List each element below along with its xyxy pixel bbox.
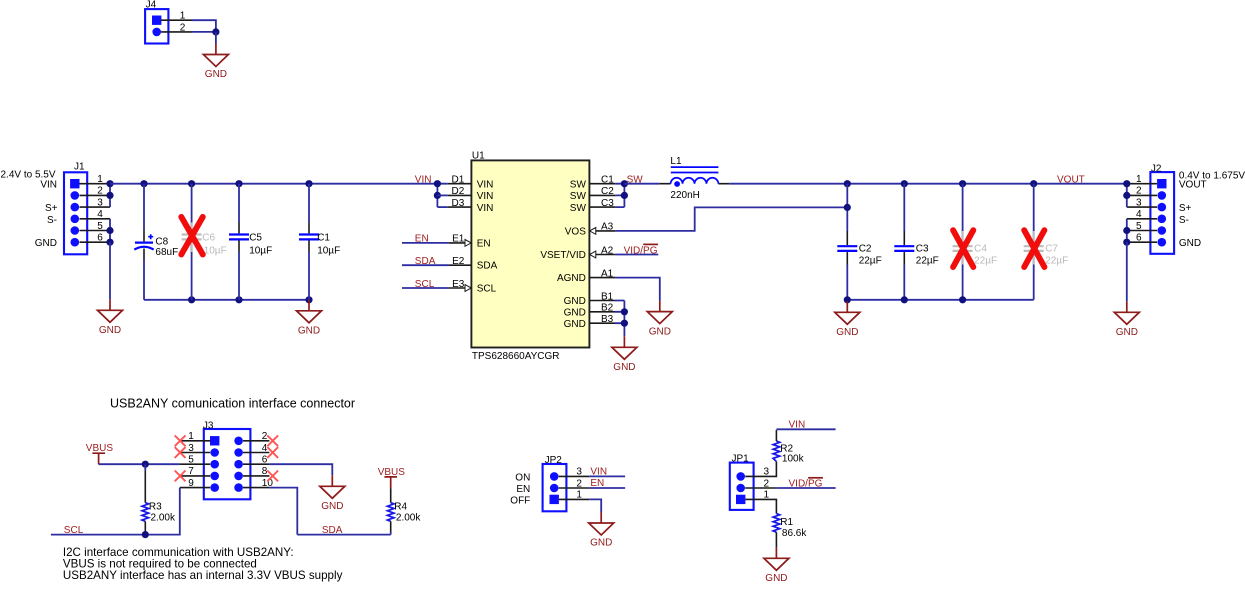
- J3 pin stubs left: [180, 441, 211, 488]
- wire J4 pin2 stub: [161, 31, 192, 33]
- wire J2 pin6 stub: [1127, 241, 1157, 243]
- wire J1 pin4 stub: [80, 218, 111, 220]
- svg-text:SCL: SCL: [477, 284, 497, 295]
- ground at J3 pin6: [320, 475, 345, 512]
- svg-text:C2: C2: [601, 186, 614, 197]
- junction J2 pin6: [1123, 239, 1130, 246]
- svg-text:D3: D3: [452, 198, 465, 209]
- connector J1: [64, 162, 87, 255]
- svg-text:VBUS: VBUS: [86, 443, 114, 454]
- resistor R1 86.6k: [773, 514, 807, 548]
- wire VID/PG stub: [615, 254, 658, 256]
- svg-text:GND: GND: [564, 296, 586, 307]
- junction SW C2: [621, 192, 628, 199]
- wire AGND to ground: [615, 278, 659, 301]
- svg-text:VIN: VIN: [415, 175, 432, 186]
- J1 side labels: [1, 170, 58, 249]
- junction J4 GND node: [212, 28, 219, 35]
- svg-text:SW: SW: [570, 191, 587, 202]
- wire J4 pin1 to corner: [192, 20, 216, 32]
- svg-text:R3: R3: [149, 501, 162, 512]
- junction bottom rail at C3: [901, 296, 908, 303]
- wire SDA run: [297, 534, 390, 536]
- svg-text:GND: GND: [35, 238, 57, 249]
- wire J3 pin10 to SDA: [269, 488, 297, 535]
- svg-text:VIN: VIN: [477, 191, 494, 202]
- svg-text:VIN: VIN: [40, 180, 57, 191]
- svg-text:A2: A2: [601, 245, 614, 256]
- junction J2 pin2: [1123, 192, 1130, 199]
- svg-text:10µF: 10µF: [317, 246, 340, 257]
- inductor L1 220nH: [659, 156, 729, 201]
- ground at JP2: [589, 512, 614, 549]
- capacitor C2 22uF: [837, 231, 881, 300]
- junction J2 pin1: [1123, 180, 1130, 187]
- junction J1 pin5: [106, 227, 113, 234]
- ground below R1: [764, 547, 789, 584]
- wire VIN vertical to D2 D3: [436, 184, 438, 207]
- wire J1 pin5 stub: [80, 230, 111, 232]
- wire VBUS to J3 pin5: [99, 463, 180, 465]
- svg-text:D1: D1: [452, 175, 465, 186]
- svg-text:J1: J1: [74, 162, 85, 173]
- wire L1 to output rail: [729, 183, 1127, 185]
- U1 pin C1 SW: [570, 175, 616, 191]
- svg-text:OFF: OFF: [510, 495, 530, 506]
- wire J4 pin2 to junction: [192, 31, 216, 33]
- wire J2 pin5 stub: [1127, 230, 1157, 232]
- wire JP1 pin3 to R2: [745, 462, 776, 477]
- node SCL wire: [402, 279, 497, 295]
- svg-text:VID/PG: VID/PG: [789, 479, 823, 490]
- junction rail at C8: [140, 180, 147, 187]
- svg-text:22µF: 22µF: [974, 255, 997, 266]
- svg-text:C4: C4: [974, 243, 987, 254]
- wire J1 pin6 stub: [80, 241, 111, 243]
- svg-text:USB2ANY comunication interface: USB2ANY comunication interface connector: [110, 396, 355, 410]
- svg-text:C6: C6: [202, 233, 215, 244]
- svg-text:U1: U1: [472, 151, 485, 162]
- no-fit cross over C6: [181, 217, 203, 255]
- J2 pin number labels: [1136, 174, 1142, 244]
- wire J2 pin2 stub: [1127, 194, 1157, 196]
- connector JP1: [730, 454, 754, 510]
- junction R3 top: [142, 461, 149, 468]
- wire JP1 pin1 to R1: [745, 499, 776, 513]
- U1 pin D3 VIN: [448, 198, 494, 214]
- no-connect cross J3 pin8: [267, 471, 278, 482]
- wire SCL run: [51, 488, 180, 535]
- wire J1 pin6 down to ground: [109, 242, 111, 299]
- wire J2 pins 4-6 tie: [1126, 219, 1128, 242]
- svg-text:22µF: 22µF: [916, 255, 939, 266]
- svg-text:86.6k: 86.6k: [782, 528, 807, 539]
- JP2 pin number labels: [576, 467, 582, 501]
- U1 pin D1 VIN: [448, 175, 494, 191]
- svg-text:VIN: VIN: [789, 419, 806, 430]
- svg-text:S-: S-: [1179, 215, 1189, 226]
- J1 pin number labels: [97, 174, 103, 244]
- svg-text:A1: A1: [601, 268, 614, 279]
- no-connect cross J3 pin7: [175, 471, 186, 482]
- svg-text:68uF: 68uF: [155, 247, 178, 258]
- svg-text:VOUT: VOUT: [1057, 175, 1085, 186]
- junction bottom rail at C2: [844, 296, 851, 303]
- junction J1 pin2: [106, 192, 113, 199]
- wire J1 pins 4-6 tie: [109, 219, 111, 242]
- svg-text:2.00k: 2.00k: [396, 513, 421, 524]
- wire J1 pins 1-3 tie: [109, 184, 111, 207]
- svg-text:10µF: 10µF: [204, 245, 227, 256]
- J3 pin stubs right: [243, 441, 269, 488]
- svg-text:VID/PG: VID/PG: [624, 245, 658, 256]
- svg-text:SW: SW: [570, 179, 587, 190]
- wire J1 pin2 stub: [80, 194, 111, 196]
- svg-text:EN: EN: [590, 478, 604, 489]
- net label VID/PG at JP1: [789, 478, 823, 490]
- svg-text:J2: J2: [1151, 163, 1162, 174]
- svg-text:D2: D2: [452, 186, 465, 197]
- svg-text:C1: C1: [601, 175, 614, 186]
- junction bottom rail at C4: [959, 296, 966, 303]
- wire D2 link: [437, 194, 447, 196]
- note paragraph: [63, 546, 343, 582]
- wire J2 pin3 stub: [1127, 206, 1157, 208]
- connector J3: [203, 420, 251, 499]
- svg-text:VSET/VID: VSET/VID: [540, 250, 586, 261]
- J2 side labels: [1179, 170, 1245, 248]
- svg-text:C3: C3: [916, 243, 929, 254]
- junction B3: [621, 320, 628, 327]
- node SW tie: [615, 184, 624, 207]
- svg-text:100k: 100k: [782, 453, 805, 464]
- svg-text:C5: C5: [249, 233, 262, 244]
- JP1 pin number labels: [764, 467, 770, 501]
- net label VID/PG at U1: [624, 244, 658, 256]
- svg-text:C1: C1: [317, 233, 330, 244]
- capacitor C6 (DNP 10uF, grayed): [182, 184, 227, 300]
- J3 right pin number labels: [262, 431, 274, 489]
- svg-text:S-: S-: [47, 215, 57, 226]
- svg-text:VIN: VIN: [590, 466, 607, 477]
- capacitor C8 (polarized 68uF): [134, 184, 178, 300]
- svg-text:C8: C8: [155, 236, 168, 247]
- svg-text:SW: SW: [570, 203, 587, 214]
- junction rail at C5: [235, 180, 242, 187]
- wire VIN top rail: [110, 183, 448, 185]
- ground below J1: [98, 299, 123, 336]
- wire C2 column: [846, 184, 848, 231]
- svg-text:JP1: JP1: [732, 454, 750, 465]
- svg-text:B1: B1: [601, 291, 614, 302]
- ground below J4: [203, 44, 228, 81]
- svg-text:B3: B3: [601, 314, 614, 325]
- ground below U1: [612, 336, 637, 373]
- junction B2: [621, 308, 628, 315]
- U1 pin A3 VOS: [565, 222, 616, 238]
- wire VIN bottom rail: [144, 299, 309, 301]
- wire J2 pin1 stub: [1127, 183, 1157, 185]
- junction VIN D2: [434, 192, 441, 199]
- svg-text:L1: L1: [670, 156, 682, 167]
- svg-text:SDA: SDA: [477, 261, 498, 272]
- junction output rail at C4: [959, 180, 966, 187]
- svg-text:C2: C2: [859, 243, 872, 254]
- svg-text:A3: A3: [601, 222, 614, 233]
- wire VOS feedback: [615, 207, 847, 231]
- wire J3 pin6 to ground: [269, 464, 332, 475]
- no-connect cross J3 pin3: [175, 447, 186, 458]
- svg-text:22µF: 22µF: [1045, 255, 1068, 266]
- ground at AGND: [647, 301, 672, 338]
- svg-text:J4: J4: [146, 0, 157, 11]
- wire SW to L1: [624, 183, 659, 185]
- no-connect cross J3 pin2: [267, 435, 278, 446]
- wire JP2 pin2 EN: [559, 478, 625, 489]
- wire output bottom rail: [847, 299, 1033, 301]
- net label VBUS right: [378, 467, 406, 488]
- svg-text:22µF: 22µF: [859, 255, 882, 266]
- junction SCL at R3: [142, 531, 149, 538]
- wire B pins tie to ground: [615, 301, 624, 337]
- svg-text:AGND: AGND: [557, 273, 586, 284]
- svg-text:USB2ANY interface has an inter: USB2ANY interface has an internal 3.3V V…: [63, 569, 343, 582]
- svg-text:220nH: 220nH: [670, 190, 699, 201]
- capacitor C5 10uF: [229, 184, 272, 300]
- svg-text:EN: EN: [477, 238, 491, 249]
- svg-text:2.00k: 2.00k: [151, 513, 176, 524]
- U1 pin B2 GND: [564, 303, 615, 319]
- no-fit cross over C7: [1024, 230, 1044, 267]
- capacitor C1 10uF: [299, 184, 340, 300]
- capacitor C3 22uF: [894, 184, 939, 300]
- junction output rail at C3: [901, 180, 908, 187]
- junction output rail at C2: [844, 180, 851, 187]
- node EN wire: [402, 234, 491, 250]
- junction VOS tee: [844, 204, 851, 211]
- junction bottom rail at C1: [305, 296, 312, 303]
- junction output rail at C7: [1030, 180, 1037, 187]
- svg-text:VIN: VIN: [477, 203, 494, 214]
- U1 pin B3 GND: [564, 314, 615, 330]
- wire D3 link: [437, 206, 447, 208]
- ground below C2: [835, 301, 860, 338]
- connector J2: [1150, 163, 1174, 253]
- node SDA wire: [402, 256, 498, 272]
- connector JP2: [543, 455, 567, 511]
- svg-text:B2: B2: [601, 303, 614, 314]
- U1 pin C2 SW: [570, 186, 616, 202]
- svg-text:GND: GND: [564, 308, 586, 319]
- wire JP1 pin2 VID/PG: [745, 487, 835, 489]
- junction J1 pin1: [106, 180, 113, 187]
- U1 pin A1 AGND: [557, 268, 615, 284]
- connector J4: [145, 0, 168, 44]
- svg-text:R4: R4: [394, 501, 407, 512]
- svg-text:VOUT: VOUT: [1179, 180, 1207, 191]
- junction J2 pin5: [1123, 227, 1130, 234]
- svg-text:J3: J3: [203, 420, 214, 431]
- ground below C1 column: [297, 300, 322, 337]
- no-fit cross over C4: [953, 230, 973, 267]
- U1 pin D2 VIN: [448, 186, 494, 202]
- svg-text:VOS: VOS: [565, 226, 586, 237]
- wire J1 pin3 stub: [80, 206, 111, 208]
- wire JP2 pin3 VIN: [559, 466, 625, 477]
- svg-text:S+: S+: [45, 203, 58, 214]
- no-connect cross J3 pin1: [175, 435, 186, 446]
- wire J2 pin4 stub: [1127, 218, 1157, 220]
- resistor R4 2.00k: [387, 488, 421, 534]
- capacitor C4 (DNP 22uF, grayed): [953, 184, 998, 300]
- svg-text:C7: C7: [1045, 243, 1058, 254]
- svg-text:EN: EN: [516, 484, 530, 495]
- junction VIN D1: [434, 180, 441, 187]
- svg-text:S+: S+: [1179, 203, 1192, 214]
- resistor R3 2.00k: [142, 464, 176, 534]
- svg-text:E2: E2: [452, 256, 465, 267]
- junction J1 pin6: [106, 239, 113, 246]
- junction rail at C1: [305, 180, 312, 187]
- wire J4 junction down: [215, 32, 217, 44]
- wire J1 pin1 stub: [80, 183, 111, 185]
- U1 pin B1 GND: [564, 291, 615, 307]
- J3 left pin number labels: [188, 431, 194, 489]
- U1 pin C3 SW: [570, 198, 616, 214]
- junction SW C1: [621, 180, 628, 187]
- wire JP2 pin1 to ground: [559, 499, 601, 512]
- capacitor C7 (DNP 22uF, grayed): [1024, 184, 1068, 300]
- svg-text:R1: R1: [780, 517, 793, 528]
- svg-text:10µF: 10µF: [249, 246, 272, 257]
- wire J2 pins 1-3 tie: [1126, 184, 1128, 207]
- ground below J2: [1114, 301, 1139, 338]
- no-connect cross J3 pin4: [267, 447, 278, 458]
- junction rail at C6: [188, 180, 195, 187]
- svg-text:JP2: JP2: [545, 455, 563, 466]
- net label VBUS left: [86, 443, 114, 464]
- svg-text:E1: E1: [452, 234, 465, 245]
- op-amp U1 TPS628660AYCGR body: [471, 151, 589, 362]
- svg-text:C3: C3: [601, 198, 614, 209]
- svg-text:GND: GND: [564, 319, 586, 330]
- svg-text:ON: ON: [515, 472, 530, 483]
- resistor R2 100k: [773, 430, 804, 464]
- wire VIN at R2: [776, 428, 835, 430]
- svg-text:TPS628660AYCGR: TPS628660AYCGR: [472, 351, 560, 362]
- junction bottom rail at C5: [235, 296, 242, 303]
- junction bottom rail at C6: [188, 296, 195, 303]
- svg-text:GND: GND: [1179, 238, 1201, 249]
- svg-text:E3: E3: [452, 279, 465, 290]
- wire J4 pin1 stub: [161, 19, 192, 21]
- wire J2 pin6 down to ground: [1126, 242, 1128, 301]
- svg-text:VIN: VIN: [477, 179, 494, 190]
- U1 pin A2 VSET/VID: [540, 245, 615, 261]
- JP2 side labels ON EN OFF: [510, 472, 530, 506]
